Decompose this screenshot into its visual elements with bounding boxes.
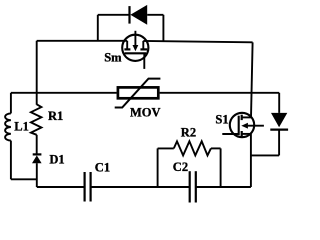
inductor L1 top lead bbox=[10, 93, 12, 114]
svg-text:Sm: Sm bbox=[104, 51, 122, 65]
R2 box top-left wire bbox=[158, 147, 174, 149]
diode D2 triangle (points down) bbox=[271, 113, 287, 127]
diode D2 cathode bar bbox=[270, 129, 288, 131]
wire S1 drain vertical bbox=[251, 42, 253, 117]
wire top bus right segment (slightly sloped) bbox=[143, 41, 252, 42]
svg-text:D1: D1 bbox=[49, 152, 64, 166]
svg-text:C1: C1 bbox=[95, 160, 110, 174]
S1 body lead (pokes right) bbox=[248, 125, 264, 127]
Sm source contact bar bbox=[140, 48, 147, 50]
wire bottom-left jog bbox=[11, 178, 37, 180]
capacitor C2 right plate bbox=[195, 171, 197, 202]
S1 source contact bar bbox=[241, 131, 243, 136]
varistor MOV box bbox=[118, 87, 158, 98]
diode Dm cathode bar bbox=[128, 6, 130, 24]
svg-text:R2: R2 bbox=[181, 125, 196, 139]
wire MOV bus left (L1 top to MOV box) bbox=[11, 92, 117, 94]
wire right diode top lead bbox=[278, 93, 280, 113]
MOSFET Sm body circle bbox=[122, 35, 148, 61]
wire bottom bus right (C2 to S1 source corner) bbox=[196, 186, 251, 188]
inductor L1 bottom lead bbox=[10, 141, 12, 180]
svg-text:MOV: MOV bbox=[130, 105, 161, 119]
Sm gate lead (dangles down) bbox=[143, 53, 145, 69]
capacitor C1 right plate bbox=[89, 172, 91, 202]
Sm body arrow head (down) bbox=[133, 45, 139, 51]
wire bypass loop right leg bbox=[162, 15, 164, 41]
wire bypass loop top right bbox=[147, 14, 163, 16]
capacitor C2 left plate bbox=[189, 171, 191, 202]
resistor R1 zigzag bbox=[31, 104, 42, 135]
svg-text:R1: R1 bbox=[48, 109, 63, 123]
varistor MOV diagonal stroke bbox=[115, 79, 161, 108]
MOSFET S1 body circle bbox=[230, 113, 254, 137]
S1 drain stub bbox=[242, 116, 251, 118]
S1 body arrow head (left) bbox=[241, 123, 248, 129]
svg-text:L1: L1 bbox=[14, 119, 29, 133]
diode D1 cathode bar bbox=[33, 153, 42, 155]
S1 drain contact bar bbox=[241, 115, 243, 120]
diode Dm triangle (points left) bbox=[130, 5, 147, 25]
Sm drain contact bar bbox=[124, 48, 130, 50]
wire R1 to D1 bbox=[36, 135, 38, 154]
wire bypass loop top left bbox=[98, 14, 130, 16]
wire left branch vertical (top wire to R1) bbox=[36, 41, 38, 105]
R2 box left vertical bbox=[157, 148, 159, 187]
Sm source stub right bbox=[142, 41, 144, 49]
svg-text:C2: C2 bbox=[173, 160, 188, 174]
Sm body lead (pokes above circle) bbox=[134, 31, 136, 45]
wire bypass loop left leg bbox=[97, 15, 99, 41]
diode D1 triangle (points up) bbox=[32, 155, 42, 163]
S1 gate lead (dangles left) bbox=[222, 133, 238, 135]
R2 box top-right wire bbox=[211, 147, 221, 149]
wire S1 source to diode branch bbox=[251, 154, 279, 156]
Sm gate plate bbox=[125, 52, 147, 54]
resistor R2 zigzag bbox=[174, 141, 211, 155]
wire bottom bus left (to C1) bbox=[37, 186, 85, 188]
capacitor C1 left plate bbox=[83, 172, 85, 202]
wire top bus left segment bbox=[37, 40, 128, 42]
wire bottom bus middle (C1 to C2) bbox=[91, 186, 190, 188]
wire MOV bus right (MOV box to right corner) bbox=[160, 92, 280, 94]
S1 gate plate bbox=[238, 116, 240, 136]
svg-text:S1: S1 bbox=[215, 112, 228, 126]
wire right diode bottom lead bbox=[278, 130, 280, 156]
wire S1 source vertical bbox=[250, 134, 252, 187]
R2 box right vertical bbox=[220, 148, 222, 187]
wire D1 bottom lead bbox=[36, 163, 38, 187]
Sm drain stub left bbox=[126, 41, 128, 49]
inductor L1 coil (4 arcs bulging left) bbox=[5, 113, 11, 140]
S1 source stub bbox=[242, 133, 251, 135]
